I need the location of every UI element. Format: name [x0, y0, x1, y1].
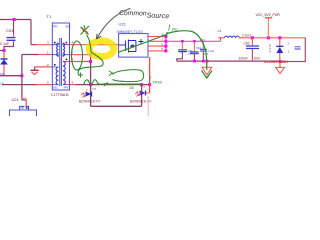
capacitor C81 bottom stub	[193, 54, 195, 61]
green cigar loop	[113, 70, 144, 82]
capacitor C80 bottom jog	[177, 52, 183, 61]
diode D (left edge) lead	[3, 51, 5, 59]
capacitor C62	[246, 46, 259, 49]
green oval around secondary winding	[72, 41, 83, 70]
ground (clamp)	[279, 63, 281, 67]
node junction dot top-left	[13, 18, 16, 21]
node junction dots	[193, 60, 196, 63]
capacitor C62 stub	[251, 38, 253, 46]
svg-text:PRI: PRI	[53, 24, 58, 28]
transformer right bottom winding	[63, 62, 70, 85]
output rail y41.3	[166, 38, 221, 42]
svg-text:PRI: PRI	[64, 85, 69, 89]
svg-text:C61: C61	[6, 28, 14, 33]
green swoosh to arrow	[167, 31, 207, 70]
wire source link y57.5	[149, 57, 152, 59]
svg-text:VCC_5V0_POR: VCC_5V0_POR	[256, 13, 281, 17]
svg-text:100uF: 100uF	[239, 56, 249, 60]
wire capacitor C61 bottom jog	[4, 41, 14, 50]
transformer T1 box	[52, 23, 69, 90]
svg-text:snse: snse	[153, 80, 163, 85]
node junction dot	[3, 49, 6, 52]
mosfet U15 box	[119, 34, 148, 58]
svg-text:0: 0	[269, 50, 271, 54]
wire vertical x90.6	[90, 55, 92, 107]
wire y75.7	[0, 75, 22, 77]
transformer core	[60, 38, 62, 86]
capacitor C61	[7, 38, 16, 41]
transformer left bottom winding	[52, 67, 58, 85]
node junction dots on rail	[181, 40, 184, 43]
wire top-left horizontal	[0, 19, 31, 21]
inductor L4	[218, 38, 224, 42]
drain bus vertical	[165, 36, 167, 51]
svg-text:PH: PH	[23, 97, 27, 101]
ground (primary) wire	[35, 66, 53, 68]
U21 riser	[22, 96, 26, 100]
svg-text:U15: U15	[119, 23, 126, 27]
node junction dot	[20, 74, 23, 77]
transformer polarity dots	[54, 42, 56, 44]
svg-text:Source: Source	[146, 11, 169, 21]
svg-text:1: 1	[288, 50, 290, 54]
wire capacitor C61 top stub	[13, 20, 15, 34]
wire faint continuation	[147, 96, 149, 116]
svg-text:2.2uH: 2.2uH	[242, 34, 251, 38]
capacitor C81 stub	[193, 41, 195, 51]
green diagonal through mosfet	[118, 32, 167, 53]
UCLAMP wire path	[280, 38, 305, 62]
svg-text:2: 2	[86, 88, 88, 92]
ground (primary) symbol	[31, 69, 39, 71]
U21 box	[10, 110, 37, 116]
green wave arrow	[102, 83, 143, 85]
svg-text:U21: U21	[12, 97, 20, 102]
transformer left top winding	[52, 43, 58, 56]
diode D (left edge)	[1, 58, 8, 60]
secondary bottom rail y61.1	[177, 60, 280, 62]
svg-text:C62: C62	[244, 41, 250, 45]
wire vertical x141.6	[141, 85, 143, 107]
VCC rail y37.8	[239, 37, 305, 39]
transformer right top winding	[63, 43, 70, 56]
svg-text:0.1uF: 0.1uF	[208, 49, 215, 53]
ground (secondary middle)	[206, 61, 208, 67]
capacitor C64 bottom stub	[202, 52, 204, 62]
diode lead bottom	[3, 65, 5, 76]
svg-text:m: m	[143, 86, 145, 89]
diode D40 (TVS)	[279, 38, 281, 46]
wire right pin y61.5	[70, 61, 91, 63]
clamp internal cap mark	[295, 47, 301, 49]
svg-text:20V: 20V	[254, 56, 261, 60]
wire pin1 y54.5	[22, 54, 39, 56]
capacitor C62 bottom lead	[251, 49, 253, 61]
capacitor C81	[190, 52, 199, 54]
green loop down from switch	[78, 35, 103, 76]
svg-text:BZX84C18-7-F: BZX84C18-7-F	[79, 99, 100, 103]
svg-text:I: I	[149, 74, 152, 84]
capacitor C64 stub	[202, 41, 204, 49]
svg-text:1N: 1N	[0, 72, 4, 76]
node junction dot	[89, 83, 92, 86]
node junction dot	[89, 53, 92, 56]
svg-text:SEC: SEC	[65, 24, 71, 28]
wire pin3 to transformer	[31, 44, 36, 46]
svg-text:D7: D7	[93, 87, 97, 91]
hand-drawn arrow to yellow ring	[97, 9, 131, 40]
svg-text:0.1uF: 0.1uF	[0, 42, 10, 46]
mosfet right pin wires	[148, 36, 166, 51]
node junction dot	[89, 60, 92, 63]
wire y84.6 left	[2, 84, 37, 86]
wire vertical x21.9	[21, 55, 23, 96]
svg-text:I: I	[168, 24, 171, 33]
svg-text:T1: T1	[47, 14, 52, 19]
U21 mosfet glyph	[20, 106, 29, 110]
svg-text:SEC: SEC	[53, 85, 59, 89]
green plus	[78, 73, 83, 78]
capacitor C80 stub	[181, 41, 183, 49]
capacitor C80	[178, 50, 187, 52]
wire vertical x31	[30, 20, 32, 45]
wire y84.6 right	[70, 84, 76, 86]
node junction dots on bus	[164, 35, 167, 38]
green squiggle along y84	[84, 80, 102, 85]
node junction dots	[140, 83, 143, 86]
svg-text:C17T9ALB: C17T9ALB	[51, 93, 69, 97]
svg-text:D6: D6	[130, 86, 134, 90]
green big arrow head	[202, 71, 213, 79]
green switch sketch	[81, 26, 90, 35]
svg-text:UCLAMP3301H: UCLAMP3301H	[264, 60, 288, 64]
wire stub from left edge	[0, 50, 4, 52]
wire right pin y54.7	[70, 54, 91, 56]
wire rail y44.7 to mosfet	[70, 44, 119, 46]
yellow highlight ring	[89, 41, 114, 57]
node junction dots	[251, 36, 254, 39]
diode D6	[140, 91, 146, 96]
wire bottom rail y106.3	[91, 105, 142, 107]
wire sense vertical x149.6	[149, 58, 151, 94]
mosfet U15 glyph	[119, 39, 144, 53]
capacitor C64	[200, 49, 207, 51]
svg-text:2: 2	[288, 42, 290, 46]
svg-text:L4: L4	[218, 29, 222, 33]
